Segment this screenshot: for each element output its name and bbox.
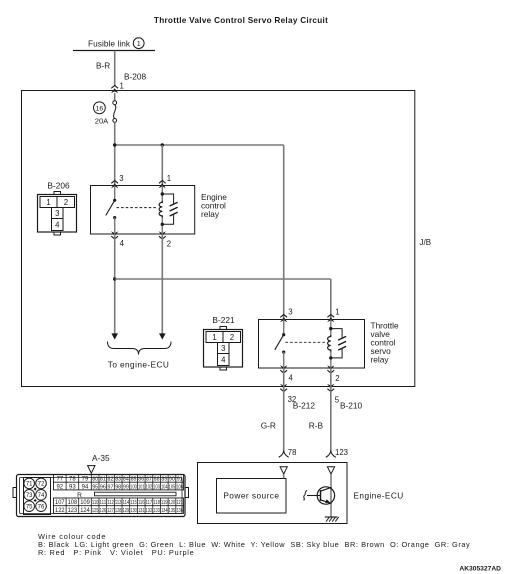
svg-text:1: 1 xyxy=(167,174,171,183)
svg-text:103: 103 xyxy=(153,484,160,490)
svg-text:16: 16 xyxy=(96,106,104,113)
svg-text:80: 80 xyxy=(92,477,98,483)
svg-text:Throttle Valve Control Servo R: Throttle Valve Control Servo Relay Circu… xyxy=(154,16,328,25)
svg-text:117: 117 xyxy=(146,500,153,506)
svg-text:90: 90 xyxy=(169,477,175,483)
svg-text:AK305327AD: AK305327AD xyxy=(459,566,501,573)
svg-text:85: 85 xyxy=(131,477,137,483)
svg-text:82: 82 xyxy=(108,477,114,483)
svg-text:3: 3 xyxy=(119,174,123,183)
svg-text:3: 3 xyxy=(288,308,292,317)
svg-text:1: 1 xyxy=(212,333,216,342)
svg-text:2: 2 xyxy=(64,198,68,207)
svg-text:78: 78 xyxy=(69,477,76,483)
svg-text:78: 78 xyxy=(288,448,297,457)
svg-text:2: 2 xyxy=(167,240,171,249)
svg-text:B-R: B-R xyxy=(96,61,110,71)
svg-text:120: 120 xyxy=(169,500,176,506)
svg-text:119: 119 xyxy=(161,500,168,506)
svg-text:77: 77 xyxy=(56,477,63,483)
svg-text:99: 99 xyxy=(123,484,129,490)
svg-text:122: 122 xyxy=(55,508,65,514)
svg-text:135: 135 xyxy=(169,508,176,514)
svg-text:Fusible link: Fusible link xyxy=(88,38,131,48)
svg-text:98: 98 xyxy=(115,484,121,490)
svg-text:75: 75 xyxy=(26,504,33,510)
svg-text:81: 81 xyxy=(100,477,106,483)
svg-text:5: 5 xyxy=(335,395,340,404)
svg-text:2: 2 xyxy=(335,374,339,383)
svg-text:relay: relay xyxy=(371,354,390,364)
svg-text:108: 108 xyxy=(68,500,78,506)
svg-text:83: 83 xyxy=(115,477,121,483)
svg-text:128: 128 xyxy=(115,508,122,514)
svg-text:74: 74 xyxy=(38,493,45,499)
svg-text:129: 129 xyxy=(123,508,130,514)
svg-text:95: 95 xyxy=(92,484,98,490)
svg-text:134: 134 xyxy=(161,508,168,514)
svg-text:93: 93 xyxy=(69,484,76,490)
svg-text:Engine-ECU: Engine-ECU xyxy=(354,490,404,500)
svg-text:121: 121 xyxy=(176,500,183,506)
svg-text:B-221: B-221 xyxy=(212,315,235,325)
svg-text:118: 118 xyxy=(153,500,160,506)
svg-text:B-208: B-208 xyxy=(124,72,147,82)
svg-text:72: 72 xyxy=(38,482,45,488)
svg-text:G-R: G-R xyxy=(261,420,276,430)
svg-text:111: 111 xyxy=(100,500,107,506)
svg-text:A-35: A-35 xyxy=(92,453,110,463)
svg-text:91: 91 xyxy=(177,477,183,483)
svg-text:88: 88 xyxy=(154,477,160,483)
svg-text:2: 2 xyxy=(230,333,234,342)
svg-text:R-B: R-B xyxy=(309,420,324,430)
svg-text:1: 1 xyxy=(120,82,124,91)
svg-text:R: R xyxy=(77,492,82,499)
svg-text:94: 94 xyxy=(82,484,89,490)
svg-text:4: 4 xyxy=(289,374,294,383)
svg-text:4: 4 xyxy=(221,355,226,364)
svg-text:110: 110 xyxy=(92,500,99,506)
svg-text:To engine-ECU: To engine-ECU xyxy=(108,359,169,369)
svg-text:132: 132 xyxy=(146,508,153,514)
svg-text:79: 79 xyxy=(82,477,89,483)
svg-text:97: 97 xyxy=(108,484,114,490)
svg-text:relay: relay xyxy=(201,209,220,219)
svg-text:J/B: J/B xyxy=(420,238,432,247)
svg-text:123: 123 xyxy=(68,508,78,514)
svg-text:71: 71 xyxy=(26,482,33,488)
svg-text:4: 4 xyxy=(120,239,125,248)
svg-text:124: 124 xyxy=(80,508,90,514)
svg-text:133: 133 xyxy=(153,508,160,514)
svg-text:84: 84 xyxy=(123,477,129,483)
svg-text:113: 113 xyxy=(115,500,122,506)
svg-text:B-212: B-212 xyxy=(293,401,316,411)
svg-text:B-206: B-206 xyxy=(47,181,70,191)
svg-text:100: 100 xyxy=(130,484,137,490)
svg-text:73: 73 xyxy=(26,493,33,499)
svg-text:107: 107 xyxy=(55,500,65,506)
svg-text:126: 126 xyxy=(100,508,107,514)
svg-text:136: 136 xyxy=(176,508,183,514)
svg-text:86: 86 xyxy=(138,477,144,483)
svg-text:105: 105 xyxy=(169,484,176,490)
svg-text:R: Red P: Pink V: Violet: R: Red P: Pink V: Violet PU: Purple xyxy=(38,548,194,557)
svg-text:Power source: Power source xyxy=(223,490,279,500)
svg-text:109: 109 xyxy=(80,500,90,506)
svg-text:115: 115 xyxy=(130,500,137,506)
svg-text:87: 87 xyxy=(146,477,152,483)
svg-text:102: 102 xyxy=(146,484,153,490)
svg-text:101: 101 xyxy=(138,484,145,490)
svg-text:114: 114 xyxy=(123,500,130,506)
svg-text:1: 1 xyxy=(137,39,141,48)
svg-text:1: 1 xyxy=(335,308,339,317)
svg-text:131: 131 xyxy=(138,508,145,514)
svg-text:20A: 20A xyxy=(95,117,109,126)
svg-text:B-210: B-210 xyxy=(340,401,363,411)
svg-text:116: 116 xyxy=(138,500,145,506)
svg-text:127: 127 xyxy=(107,508,114,514)
svg-text:104: 104 xyxy=(161,484,168,490)
svg-text:125: 125 xyxy=(92,508,99,514)
svg-text:130: 130 xyxy=(130,508,137,514)
svg-text:112: 112 xyxy=(107,500,114,506)
svg-text:92: 92 xyxy=(56,484,63,490)
svg-text:3: 3 xyxy=(55,209,59,218)
svg-text:1: 1 xyxy=(46,198,50,207)
svg-text:76: 76 xyxy=(38,504,45,510)
svg-text:106: 106 xyxy=(176,484,183,490)
svg-text:89: 89 xyxy=(161,477,167,483)
svg-text:4: 4 xyxy=(55,220,60,229)
svg-text:123: 123 xyxy=(335,448,348,457)
svg-text:96: 96 xyxy=(100,484,106,490)
svg-text:3: 3 xyxy=(221,344,225,353)
